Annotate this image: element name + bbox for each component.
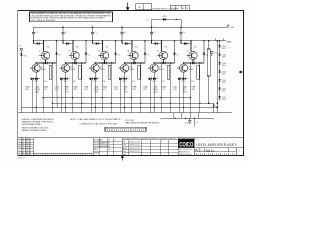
title strip top line: [18, 137, 243, 139]
wire rail2 tick 1: [214, 39, 216, 41]
wire stage 3 drop C: [110, 63, 112, 113]
svg-text:Q2: Q2: [68, 51, 70, 53]
svg-text:R10: R10: [35, 81, 38, 83]
svg-text:T-104: T-104: [222, 71, 226, 73]
wire input branch: [20, 50, 22, 112]
wire Q4B emitter: [124, 72, 126, 79]
wire stage 3 bias drop: [90, 79, 92, 113]
junction bias row 3: [94, 78, 96, 80]
diode CR5E: [153, 77, 156, 80]
wire CR4A stub: [121, 41, 123, 44]
diode CR2B: [85, 41, 87, 63]
diode CR5C: [163, 62, 165, 65]
svg-text:1 B: 1 B: [108, 149, 110, 151]
wire bus B: [52, 102, 213, 104]
wire Q5B emitter: [153, 72, 155, 79]
svg-text:C14: C14: [162, 81, 165, 83]
right frame edge arrow: [239, 71, 243, 73]
title block: [193, 138, 195, 156]
wire Q3B collector: [94, 63, 96, 64]
wire Q2B collector: [65, 63, 67, 64]
wire stage 1 bias row: [30, 78, 40, 80]
svg-text:J.B.MEL 2-15-55: J.B.MEL 2-15-55: [129, 145, 140, 147]
transistor Q4B: [118, 64, 128, 72]
wire stage 4 drop C: [140, 63, 142, 113]
revision date boxes: [170, 5, 189, 10]
diode CR5B: [174, 41, 176, 63]
svg-text:CR1: CR1: [23, 55, 26, 57]
svg-text:1: 1: [19, 147, 20, 149]
svg-text:C5: C5: [153, 32, 155, 34]
svg-text:.01: .01: [44, 89, 47, 91]
svg-text:3-7-55: 3-7-55: [171, 8, 176, 10]
diode CR1B: [56, 41, 58, 63]
svg-text:B50: B50: [26, 147, 29, 149]
diode CR1 input: [20, 53, 22, 55]
svg-text:CR5: CR5: [164, 47, 167, 49]
resistor R6E: [197, 65, 199, 79]
junction Q6A emitter/row: [192, 62, 194, 64]
wire stage 5 drop C: [169, 63, 171, 113]
junction stage 4 top rail: [121, 26, 123, 28]
svg-text:4.7K: 4.7K: [114, 89, 119, 91]
wire stage 3 drop B: [101, 63, 103, 113]
scale ruler: [195, 153, 197, 156]
wire ground bottom rail: [18, 112, 232, 114]
diode output CR15: [218, 88, 220, 90]
node input terminal: [20, 48, 22, 50]
note box: [30, 12, 113, 22]
wire stage 2 drop B: [72, 63, 74, 113]
svg-text:1/2W: 1/2W: [183, 92, 187, 94]
svg-text:J.B.MEL 2-15-55: J.B.MEL 2-15-55: [129, 151, 140, 153]
transistor Q2A: [69, 51, 80, 59]
svg-text:B50: B50: [26, 152, 29, 154]
svg-text:8-2: 8-2: [176, 8, 178, 10]
wire stage 2 emitter row: [66, 62, 86, 64]
diode output CR14: [218, 79, 220, 81]
wire Q4A emitter: [133, 60, 135, 63]
svg-text:TITLE: TITLE: [195, 139, 199, 141]
svg-text:ELECTRONICS DIV: ELECTRONICS DIV: [179, 149, 192, 151]
diode CR1A: [37, 42, 40, 45]
svg-text:1N91: 1N91: [222, 48, 226, 50]
svg-text:C6: C6: [183, 32, 185, 34]
junction CR5B top: [174, 40, 176, 42]
diode CR5D: [149, 77, 152, 80]
transistor Q1B: [30, 64, 40, 72]
svg-text:T-101: T-101: [222, 46, 226, 48]
wire stage 6 base drop: [190, 41, 192, 52]
wire aux drop 181.5: [181, 113, 183, 119]
wire CR6A stub: [180, 41, 182, 44]
svg-text:A: A: [139, 5, 141, 9]
revision table left: [18, 137, 33, 139]
diode CR4A: [125, 42, 128, 45]
svg-text:Q3: Q3: [98, 51, 100, 53]
wire stage 4 bias drop: [120, 79, 122, 113]
junction stage 5 top rail: [151, 26, 153, 28]
svg-text:1/2W: 1/2W: [65, 92, 69, 94]
diode CR1E: [35, 77, 38, 80]
junction stage 2 base/rail2: [72, 40, 74, 42]
diode output CR11: [218, 54, 220, 56]
svg-text:C2: C2: [65, 32, 67, 34]
svg-text:1N91: 1N91: [222, 82, 226, 84]
border frame: [18, 10, 244, 155]
svg-text:C3: C3: [94, 32, 96, 34]
diode CR4C: [133, 62, 135, 65]
junction stage 4 base/rail2: [131, 40, 133, 42]
capacitor C20: [210, 52, 213, 56]
wire stage 1 emitter drop: [35, 79, 37, 113]
svg-text:B50: B50: [26, 138, 29, 140]
diode CR6B: [203, 41, 205, 63]
svg-text:B: B: [115, 139, 116, 141]
junction Q2A emitter/row: [74, 62, 76, 64]
wire stage 2 base drop: [72, 41, 74, 52]
svg-text:WB: WB: [182, 8, 185, 10]
svg-text:T-106: T-106: [222, 88, 226, 90]
svg-text:WAS: RESISTOR VALUES PER ISSUE: WAS: RESISTOR VALUES PER ISSUE B: [126, 121, 160, 124]
transistor Q3A: [98, 51, 109, 59]
wire CR5A cathode: [157, 43, 161, 45]
diode CR6C: [192, 62, 194, 65]
svg-text:1/2W: 1/2W: [94, 92, 98, 94]
junction Q2B collector/row: [65, 62, 67, 64]
wire stage 4 bias row: [119, 78, 129, 80]
wire stage 6 drop C: [199, 63, 201, 113]
svg-text:1: 1: [19, 145, 20, 147]
wire CR1A anode: [34, 43, 37, 45]
junction CR2B top: [85, 40, 87, 42]
transistor Q5A: [157, 51, 168, 59]
svg-text:1N91: 1N91: [222, 57, 226, 59]
wire Q1A emitter: [45, 60, 47, 63]
svg-text:B50: B50: [26, 150, 29, 152]
resistor R2E: [79, 65, 81, 79]
wire CR3A stub: [92, 41, 94, 44]
stage 1 input coupling capacitor C1: [32, 27, 35, 41]
junction bias row 6: [183, 78, 185, 80]
junction CR4B top: [144, 40, 146, 42]
junction stage 4 rail 2: [121, 40, 123, 42]
wire stage 1 base drop: [43, 41, 45, 52]
diode CR30: [213, 105, 215, 107]
svg-text:J.B.MEL 2-15-55: J.B.MEL 2-15-55: [129, 142, 140, 144]
wire stage 2 bias row: [60, 78, 70, 80]
wire T-8 drop: [213, 103, 215, 112]
svg-text:R12: R12: [94, 81, 97, 83]
diode CR4E: [124, 77, 127, 80]
wire Q5A emitter: [163, 60, 165, 63]
wire stage 6 drop B: [190, 63, 192, 113]
svg-text:LEVEL AMPLIFIER ASS'Y: LEVEL AMPLIFIER ASS'Y: [196, 143, 238, 147]
svg-text:T-8: T-8: [216, 106, 218, 108]
diode CR2D: [60, 77, 63, 80]
wire bus A: [43, 97, 190, 99]
terminal chart: [105, 127, 146, 131]
svg-text:R14: R14: [153, 81, 156, 83]
svg-text:R11: R11: [64, 81, 67, 83]
parts list area: [92, 138, 94, 156]
svg-text:Q4: Q4: [127, 51, 129, 53]
revision arrow: [127, 3, 129, 11]
wire stage 1 emitter row: [37, 62, 57, 64]
svg-text:T-7: T-7: [196, 122, 198, 124]
junction Q3A emitter/row: [104, 62, 106, 64]
wire stage 3 emitter row: [96, 62, 116, 64]
wire CR2A anode: [63, 43, 66, 45]
diode CR6A: [184, 42, 187, 45]
junction stage 1 base/rail2: [43, 40, 45, 42]
wire stage 4 base drop: [131, 41, 133, 52]
transistor Q4A: [128, 51, 139, 59]
svg-text:1N91: 1N91: [222, 91, 226, 93]
svg-text:2 B: 2 B: [108, 143, 110, 145]
junction stage 1 rail 2: [33, 40, 35, 42]
svg-text:LISTS. SEE ALSO DWG A50-2.: LISTS. SEE ALSO DWG A50-2.: [31, 19, 57, 22]
wire stage 5 emitter row: [155, 62, 175, 64]
svg-text:C1: C1: [35, 32, 37, 34]
wire stage 3 base drop: [102, 41, 104, 52]
svg-text:CHK: CHK: [123, 145, 126, 147]
diode CR1C: [45, 62, 47, 65]
junction Q1B collector/row: [35, 62, 37, 64]
junction CR1B top: [56, 40, 58, 42]
stage 2 input coupling capacitor C2: [62, 27, 65, 41]
junction bias row 1: [35, 78, 37, 80]
junction stage 6 rail 2: [180, 40, 182, 42]
wire stage 5 drop B: [160, 63, 162, 113]
diode CR3E: [94, 77, 97, 80]
svg-text:T-103: T-103: [222, 63, 226, 65]
reference table: [93, 140, 122, 142]
diode CR5A: [155, 42, 158, 45]
stage 3 input coupling capacitor C3: [91, 27, 94, 41]
wire stage 3 bias row: [89, 78, 99, 80]
diode CR2E: [65, 77, 68, 80]
wire R21 bottom lead: [208, 76, 210, 103]
junction Q5B collector/row: [153, 62, 155, 64]
stage 4 input coupling capacitor C4: [121, 27, 124, 41]
svg-text:CR1: CR1: [46, 47, 49, 49]
svg-text:1: 1: [19, 152, 20, 154]
svg-text:B50: B50: [26, 141, 29, 143]
wire CR1A stub: [33, 41, 35, 44]
wire CR4A anode: [122, 43, 125, 45]
junction bias row 4: [124, 78, 126, 80]
junction bias row 5: [153, 78, 155, 80]
wire stage 5 bias drop: [149, 79, 151, 113]
diode CR40: [163, 18, 166, 21]
svg-text:C4: C4: [124, 32, 126, 34]
junction Q6B collector/row: [183, 62, 185, 64]
wire stage 5 base drop: [161, 41, 163, 52]
svg-text:B50: B50: [26, 154, 29, 156]
svg-text:C22: C22: [185, 123, 188, 125]
resistor R5E: [167, 65, 169, 79]
svg-text:T-204: T-204: [229, 27, 234, 29]
svg-text:FINISH: FINISH: [94, 153, 99, 155]
svg-text:12: 12: [108, 139, 110, 141]
diode CR6D: [178, 77, 181, 80]
wire Q6B collector: [183, 63, 185, 64]
transistor Q6B: [177, 64, 187, 72]
svg-text:A50 8-53: A50 8-53: [18, 157, 25, 160]
junction output ladder/rail2: [219, 40, 221, 42]
diode CR3D: [90, 77, 93, 80]
svg-text:C13: C13: [132, 81, 135, 83]
svg-text:1/2W: 1/2W: [35, 92, 39, 94]
wire stage 3 emitter drop: [94, 79, 96, 113]
svg-text:B50: B50: [26, 145, 29, 147]
svg-text:Q1: Q1: [39, 51, 41, 53]
wire stage 4 drop B: [131, 63, 133, 113]
svg-text:CONNECTED TO A CONTROL PNT UNI: CONNECTED TO A CONTROL PNT UNIT: [80, 123, 118, 126]
svg-text:1: 1: [19, 143, 20, 145]
svg-text:2 B: 2 B: [108, 146, 110, 148]
wire right return: [216, 41, 218, 113]
diode output CR10: [218, 45, 220, 47]
transistor Q6A: [187, 51, 198, 59]
svg-text:4.7K: 4.7K: [173, 89, 178, 91]
svg-text:1: 1: [19, 141, 20, 143]
svg-text:CR4: CR4: [135, 47, 138, 49]
svg-text:1/2W: 1/2W: [124, 92, 128, 94]
svg-text:T-102: T-102: [222, 54, 226, 56]
svg-text:1: 1: [19, 150, 20, 152]
wire Q1B collector: [35, 63, 37, 64]
wire stage 5 bias row: [148, 78, 158, 80]
svg-text:J.B.MEL 2-15-55: J.B.MEL 2-15-55: [129, 148, 140, 150]
wire bus C: [21, 107, 217, 109]
wire stage 2 bias drop: [61, 79, 63, 113]
wire feedback end mark: [176, 19, 177, 20]
wire Q3A emitter: [104, 60, 106, 63]
junction stage 3 top rail: [92, 26, 94, 28]
resistor R21 (tall): [207, 49, 210, 76]
wire CR4A cathode: [128, 43, 132, 45]
junction stage 5 base/rail2: [161, 40, 163, 42]
wire rail2 tick 2: [223, 39, 225, 41]
svg-text:NOTE: TO BE USED WHEN COLD STY: NOTE: TO BE USED WHEN COLD STYLE REC AMP…: [70, 118, 121, 121]
sheet arrow: [121, 156, 123, 161]
wire stage 5 emitter drop: [153, 79, 155, 113]
wire stage 6 emitter drop: [183, 79, 185, 113]
svg-text:A50-5-1: A50-5-1: [206, 149, 216, 152]
wire aux drop 190: [189, 113, 191, 119]
transistor Q3B: [89, 64, 99, 72]
resistor R1E: [49, 65, 51, 79]
drawing number row: [199, 148, 201, 152]
svg-text:T-105: T-105: [222, 80, 226, 82]
wire stage 1 bias drop: [31, 79, 33, 113]
wire Q6B emitter: [183, 72, 185, 79]
svg-text:C15: C15: [191, 81, 194, 83]
company logo block: [178, 139, 194, 148]
wire bias rail: [34, 40, 226, 42]
capacitor C22: [188, 118, 191, 124]
transistor Q2B: [59, 64, 69, 72]
wire aux drop 173: [172, 113, 174, 119]
wire Q2B emitter: [65, 72, 67, 79]
junction bias row 2: [65, 78, 67, 80]
junction CR3B top: [115, 40, 117, 42]
svg-text:CAPACITORS ARE IN MFD.: CAPACITORS ARE IN MFD.: [22, 129, 48, 132]
svg-text:T-201: T-201: [227, 42, 232, 44]
svg-text:R15: R15: [182, 81, 185, 83]
wire slant drop stage 1: [56, 63, 59, 108]
wire stage 1 drop B: [42, 63, 44, 113]
wire lower aux rail: [161, 117, 214, 119]
svg-text:C20: C20: [214, 52, 217, 54]
junction Q5A emitter/row: [163, 62, 165, 64]
diode CR3A: [96, 42, 99, 45]
wire CR6A cathode: [187, 43, 191, 45]
junction stage 2 rail 2: [62, 40, 64, 42]
junction stage 6 base/rail2: [190, 40, 192, 42]
wire Q6A emitter: [192, 60, 194, 63]
svg-text:C10: C10: [44, 81, 47, 83]
svg-text:DIODES ARE 1N34A.: DIODES ARE 1N34A.: [22, 123, 42, 126]
wire CR6A anode: [181, 43, 184, 45]
svg-text:.01: .01: [162, 89, 165, 91]
svg-text:CR3: CR3: [105, 47, 108, 49]
diode CR4D: [119, 77, 122, 80]
svg-text:COICO: COICO: [179, 141, 193, 148]
junction Q4B collector/row: [124, 62, 126, 64]
wire CR3A cathode: [98, 43, 102, 45]
wire stage 6 bias row: [178, 78, 188, 80]
svg-text:1N91: 1N91: [222, 65, 226, 67]
junction Q3B collector/row: [94, 62, 96, 64]
junction stage 6 top rail: [180, 26, 182, 28]
wire stage 4 emitter drop: [124, 79, 126, 113]
wire aux tail: [193, 118, 195, 126]
svg-text:C11: C11: [73, 81, 76, 83]
junction stage 3 rail 2: [92, 40, 94, 42]
wire stage 4 emitter row: [125, 62, 145, 64]
wire CR2A stub: [62, 41, 64, 44]
wire CR3A anode: [93, 43, 96, 45]
diode CR6E: [183, 77, 186, 80]
wire Q5B collector: [153, 63, 155, 64]
wire aux drop 198.5: [198, 113, 200, 119]
wire Q3B emitter: [94, 72, 96, 79]
svg-text:.01: .01: [103, 89, 106, 91]
wire stage 2 emitter drop: [65, 79, 67, 113]
resistor R3E: [108, 65, 110, 79]
wire R21 top lead: [208, 41, 210, 49]
svg-text:1: 1: [19, 154, 20, 156]
svg-text:1N91: 1N91: [222, 74, 226, 76]
wire stage 1 drop C: [51, 63, 53, 113]
wire top rail end tick: [227, 25, 229, 28]
wire stage 6 emitter row: [184, 62, 204, 64]
diode output CR12: [218, 62, 220, 64]
svg-text:R13: R13: [123, 81, 126, 83]
feedback loop wire over top rail: [151, 19, 153, 27]
wire CR5A anode: [152, 43, 155, 45]
svg-text:1: 1: [19, 138, 20, 140]
wire Q1B emitter: [35, 72, 37, 79]
wire CR5A stub: [151, 41, 153, 44]
svg-text:CR2: CR2: [76, 47, 79, 49]
svg-text:T-107: T-107: [222, 97, 226, 99]
svg-text:T-1: T-1: [19, 46, 21, 48]
svg-text:Q6: Q6: [186, 51, 188, 53]
